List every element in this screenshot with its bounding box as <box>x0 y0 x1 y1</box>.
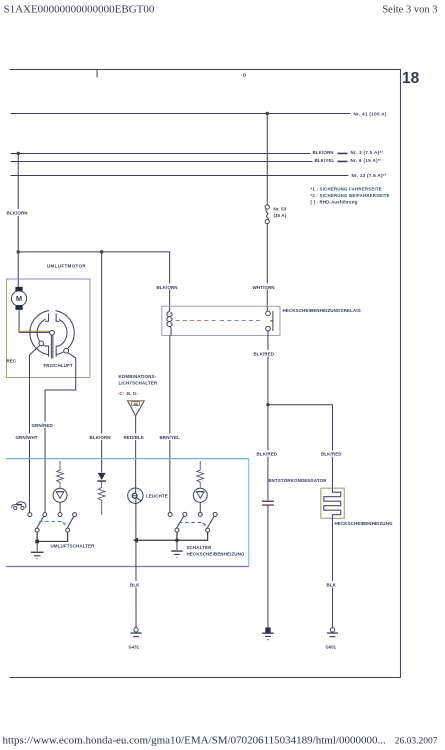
body ground (capacitor) <box>262 627 274 639</box>
motor M1 body <box>11 291 26 306</box>
recirculation door inner ring <box>37 318 67 348</box>
wire: fuse row BLK/ORN <box>10 152 310 154</box>
svg-text:[ ] : RHD-Ausführung: [ ] : RHD-Ausführung <box>310 199 357 204</box>
svg-text:18: 18 <box>402 70 420 87</box>
svg-text:SCHALTER: SCHALTER <box>186 545 212 550</box>
svg-text:G601: G601 <box>325 644 336 649</box>
svg-text:BLK: BLK <box>326 582 336 587</box>
svg-text:GRN/WHT: GRN/WHT <box>15 435 37 440</box>
instrument panel box (teal) <box>6 458 249 460</box>
wire: battery row Nr.41 <box>10 112 350 114</box>
ground G601 <box>327 628 338 637</box>
Umluftschalter terminal 1 <box>28 513 32 517</box>
svg-text:-C- -B, D-: -C- -B, D- <box>118 391 138 396</box>
Heizung moving contact left <box>175 528 179 532</box>
svg-text:BLK/ORN: BLK/ORN <box>89 435 110 440</box>
Heizung moving contact right <box>206 528 210 532</box>
indicator resistor R3 (Heizung) <box>197 461 204 488</box>
svg-text:BLK/YEL: BLK/YEL <box>314 158 334 163</box>
Heizung switch terminal 3 <box>198 512 202 516</box>
svg-text:BLK/RED: BLK/RED <box>253 351 274 356</box>
capacitor C1 plate 2 <box>262 504 274 506</box>
door pivot <box>50 330 55 335</box>
svg-text:Nr. 3 (7.5 A)*¹: Nr. 3 (7.5 A)*¹ <box>350 150 383 155</box>
label GRN/RED <box>30 421 53 428</box>
Heizung mechanical dashed link <box>179 523 205 526</box>
junction dot <box>175 538 179 542</box>
svg-text:(30 A): (30 A) <box>273 213 286 218</box>
Umluftschalter blade left <box>36 516 43 528</box>
label RED/BLK <box>122 433 145 440</box>
svg-text:*2 : SICHERUNG BEIFAHRERSEITE: *2 : SICHERUNG BEIFAHRERSEITE <box>310 193 389 198</box>
junction BLK/ORN branch <box>17 250 20 253</box>
Umluftschalter terminal 4 <box>73 513 77 517</box>
relay box HECKSCHEIBENHEIZUNGSRELAIS <box>162 306 280 335</box>
motor M1 bottom cap <box>15 305 22 310</box>
indicator lamp (Heizung) <box>193 488 207 502</box>
relay coil <box>167 311 172 330</box>
wire capacitor to ground <box>267 505 269 627</box>
svg-text:*1 : SICHERUNG FAHRERSEITE: *1 : SICHERUNG FAHRERSEITE <box>310 186 381 191</box>
svg-text:M: M <box>16 294 22 303</box>
svg-text:Nr. 13 (7.5 A)*²: Nr. 13 (7.5 A)*² <box>351 173 386 178</box>
label WHT/GRN <box>251 283 275 290</box>
Umluftschalter common bar <box>37 532 67 541</box>
ground (Heizung switch) <box>171 540 182 557</box>
junction arrow on lamp wire <box>133 538 138 543</box>
capacitor C1 plate 1 <box>262 500 274 502</box>
arrow to fuse Nr.6 <box>337 160 347 162</box>
wire: main BLK/ORN vertical from fuse row <box>17 153 19 287</box>
top slot walls <box>45 313 49 321</box>
svg-text:UMLUFTSCHALTER: UMLUFTSCHALTER <box>50 543 95 548</box>
Umluftschalter blade right <box>67 516 74 528</box>
svg-text:BLK/ORN: BLK/ORN <box>156 285 177 290</box>
junction BLK/RED branch <box>266 403 269 406</box>
svg-text:S1AXE00000000000000EBGT00: S1AXE00000000000000EBGT00 <box>3 3 154 15</box>
junction BLK/ORN row <box>17 152 20 155</box>
label GRN/WHT <box>14 433 38 440</box>
arrow to fuse Nr.3 <box>337 152 347 154</box>
svg-text:https://www.ecom.honda-eu.com/: https://www.ecom.honda-eu.com/gma10/EMA/… <box>2 734 385 746</box>
svg-text:FRISCHLUFT: FRISCHLUFT <box>43 363 72 368</box>
label BLK/RED (below relay) <box>252 350 275 357</box>
illumination diode D1 <box>98 473 106 480</box>
wire lamp to terminal <box>199 502 201 512</box>
label BLK/RED (grid) <box>320 450 343 457</box>
ground G431 <box>130 628 141 637</box>
bottom slot walls <box>45 346 49 357</box>
svg-text:RED/BLK: RED/BLK <box>123 435 144 440</box>
wire grid to G601 <box>331 518 333 627</box>
svg-text:REC: REC <box>6 358 16 363</box>
grid element meander <box>324 488 341 518</box>
car icon <box>12 502 26 510</box>
wire: fuse row Nr.13 <box>10 175 348 177</box>
blower unit box <box>6 279 90 378</box>
indicator resistor R2 (Umluft) <box>57 461 64 488</box>
Heizung blade left <box>176 516 183 528</box>
wire coil output BRN/YEL <box>170 330 172 335</box>
wire branch to defogger grid <box>268 405 333 489</box>
relay mechanical dashed link <box>175 320 218 322</box>
wire motor to door lever <box>18 310 20 333</box>
svg-text:HECKSCHEIBENHEIZUNGSRELAIS: HECKSCHEIBENHEIZUNGSRELAIS <box>282 308 360 313</box>
wire GRN/WHT from REC contact <box>30 345 40 512</box>
wire: WHT/GRN feed from Nr.41 to fuse Nr.53 <box>266 113 268 205</box>
connector triangle (comb. light switch) <box>128 401 145 416</box>
wire lamp to terminal <box>59 502 61 512</box>
svg-text:Nr. 53: Nr. 53 <box>273 206 286 211</box>
Heizung switch terminal 1 <box>168 512 172 516</box>
ground (Umluftschalter) <box>31 541 44 558</box>
fuse Nr.53 (30 A) <box>265 205 269 224</box>
Umluftschalter mechanical dashed link <box>39 522 65 525</box>
label BLK (lamp) <box>129 581 143 588</box>
Umluftschalter terminal 3 <box>58 513 62 517</box>
wire: BLK/ORN illumination drop <box>101 252 103 473</box>
wire: branch to relay coil <box>18 252 169 312</box>
defogger grid HECKSCHEIBENHEIZUNG <box>321 488 344 518</box>
illumination resistor R1 <box>98 481 105 514</box>
Umluftschalter moving contact right <box>66 528 70 532</box>
svg-text:Nr. 6 (15 A)*¹: Nr. 6 (15 A)*¹ <box>350 158 382 163</box>
svg-text:26.03.2007: 26.03.2007 <box>395 736 438 746</box>
door slot gaps (mask) <box>49 307 55 324</box>
svg-text:HECKSCHEIBENHEIZUNG: HECKSCHEIBENHEIZUNG <box>334 521 393 526</box>
indicator lamp (Umluft) <box>53 488 67 502</box>
svg-text:ENTSTÖRKONDENSATOR: ENTSTÖRKONDENSATOR <box>268 477 327 483</box>
svg-text:G431: G431 <box>128 644 139 649</box>
door flap <box>50 335 52 358</box>
svg-text:BLK/ORN: BLK/ORN <box>6 210 27 215</box>
Umluftschalter moving contact left <box>35 528 39 532</box>
REC contact <box>39 341 44 346</box>
junction on Nr.41 row <box>266 112 269 115</box>
svg-text:HECKSCHEIBENHEIZUNG: HECKSCHEIBENHEIZUNG <box>186 551 245 556</box>
svg-text:WHT/GRN: WHT/GRN <box>252 285 274 290</box>
lever link (tan) <box>19 330 50 332</box>
wire GRN/RED from FRISCHLUFT contact <box>45 353 76 513</box>
LEUCHTE lamp L1 <box>128 488 143 503</box>
svg-text:BLK/RED: BLK/RED <box>256 452 277 457</box>
wire WHT/GRN down to relay contact <box>266 223 268 311</box>
FRISCHLUFT contact <box>64 348 69 353</box>
label BRN/YEL <box>158 433 181 440</box>
svg-text:GRN/RED: GRN/RED <box>31 423 53 428</box>
label BLK (grid) <box>325 581 339 588</box>
relay contact lower <box>266 326 271 331</box>
label BLK/RED (capacitor) <box>255 450 278 457</box>
junction square <box>35 540 39 544</box>
Heizung common bar <box>177 532 208 540</box>
Heizung switch terminal 4 <box>213 512 217 516</box>
label BLK/ORN (illumination) <box>88 433 112 440</box>
motor M1 top cap <box>15 287 22 292</box>
svg-text:BLK: BLK <box>130 582 140 587</box>
svg-text:UMLUFTMOTOR: UMLUFTMOTOR <box>47 263 86 268</box>
Umluftschalter terminal 2 <box>43 513 47 517</box>
relay contact upper <box>266 311 271 316</box>
junction illumination branch <box>100 250 103 253</box>
svg-text:BLK/RED: BLK/RED <box>321 452 342 457</box>
Heizung blade right <box>207 516 214 528</box>
wire: fuse row BLK/YEL <box>10 160 312 162</box>
svg-text:Nr. 41 (100 A): Nr. 41 (100 A) <box>353 111 386 116</box>
svg-text:LEUCHTE: LEUCHTE <box>146 493 168 498</box>
wire BLK/RED from relay contact <box>267 331 269 501</box>
wire RED/BLK from triangle <box>135 416 137 488</box>
label BLK/ORN <box>5 209 31 216</box>
label BLK/ORN (coil wire) <box>155 283 179 290</box>
Heizung switch terminal 2 <box>183 512 187 516</box>
svg-text:Seite 3 von 3: Seite 3 von 3 <box>382 4 437 15</box>
svg-text:LICHTSCHALTER: LICHTSCHALTER <box>118 380 157 385</box>
wire lamp down to G431 <box>135 499 137 628</box>
relay contact blade <box>272 311 274 331</box>
svg-text:BLK/ORN: BLK/ORN <box>312 150 333 155</box>
svg-text:KOMBINATIONS-: KOMBINATIONS- <box>118 374 156 379</box>
recirculation door outer ring <box>30 311 74 355</box>
svg-text:BRN/YEL: BRN/YEL <box>159 435 180 440</box>
